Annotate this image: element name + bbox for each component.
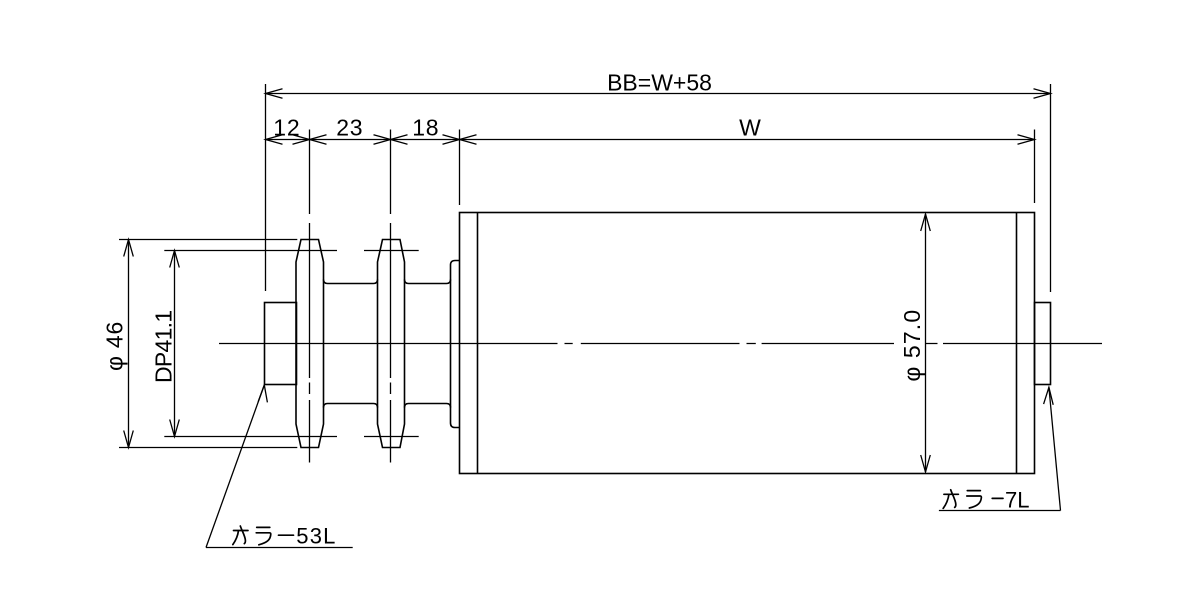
extension line W right [1034,130,1036,204]
tick extension at 18|W boundary [459,130,461,206]
svg-text:12: 12 [273,115,300,141]
arrowhead phi57.0 top [921,214,931,231]
body end cap line left [477,213,479,474]
dimension phi46 extension line bottom [119,447,297,449]
bearing shoulder left [451,261,460,428]
arrowhead W right [1018,135,1035,145]
leader line for collar 7L [1049,387,1061,510]
svg-text:18: 18 [412,115,439,141]
arrowhead leader 7L [1044,387,1054,405]
body end cap line right [1016,213,1018,474]
svg-text:φ 57.0: φ 57.0 [899,309,925,382]
centerline sprocket 2 vertical [390,223,392,463]
arrowheads X at 18|W [443,135,477,145]
hub top between sprockets [324,280,378,284]
arrowhead phi57.0 bottom [921,455,931,472]
tick extension at 23|18 boundary [390,130,392,215]
dimension line row 12/23/18/W [266,139,1035,141]
arrowhead BB right [1034,89,1051,99]
arrowhead DP41.1 top [170,251,180,268]
arrowhead phi46 top [124,240,134,257]
leader line for collar 53L [206,385,264,548]
arrowheads X at 12|23 [293,135,327,145]
svg-text:BB=W+58: BB=W+58 [607,70,712,96]
collar 53L (left collar) [265,303,297,385]
collar 7L (right collar) [1035,303,1051,385]
svg-text:φ 46: φ 46 [102,321,128,371]
dimension DP41.1 extension line top [164,250,418,252]
dimension line phi57.0 [925,214,927,472]
arrowhead phi46 bottom [124,431,134,448]
katakana KA of 7L label [943,490,958,509]
svg-text:23: 23 [336,115,363,141]
hub bottom between sprocket2 and shoulder [405,404,451,408]
centerline horizontal (main axis) [219,343,1102,345]
dimension line DP41.1 [174,251,176,437]
hub top between sprocket2 and shoulder [405,280,451,284]
underline label 7L [939,510,1061,512]
arrowhead 12 left [266,135,283,145]
sprocket 2 outline [378,240,405,448]
sprocket 1 outline [296,240,324,448]
katakana long dash of 53L label [279,534,294,536]
roller body tube [460,213,1035,474]
arrowhead DP41.1 bottom [170,420,180,437]
dimension BB extension line left [265,84,267,291]
centerline sprocket 1 vertical [309,223,311,463]
dimension phi46 extension line top [119,239,297,241]
underline label 53L [206,547,353,549]
katakana RA of 7L label [967,491,982,508]
arrowheads X at 23|18 [374,135,408,145]
svg-text:W: W [739,115,761,141]
svg-text:7L: 7L [1005,487,1029,512]
dimension line BB=W+58 [266,93,1051,95]
katakana long dash of 7L label [992,497,1003,499]
katakana RA of 53L label [256,527,271,544]
arrowhead BB left [266,89,283,99]
svg-text:DP41.1: DP41.1 [150,311,176,384]
arrowhead leader 53L [258,385,267,402]
hub bottom between sprockets [324,404,378,408]
dimension BB extension line right [1050,84,1052,292]
katakana KA of 53L label [233,526,248,545]
dimension DP41.1 extension line bottom [164,436,418,438]
svg-text:53L: 53L [296,524,336,549]
tick extension at 12|23 boundary [309,130,311,215]
dimension line phi46 [128,240,130,448]
